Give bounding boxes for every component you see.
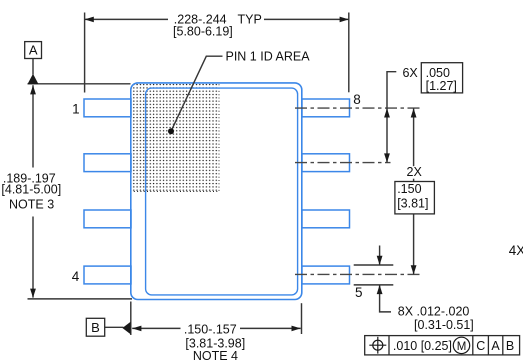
svg-text:M: M <box>457 341 467 353</box>
svg-text:NOTE 3: NOTE 3 <box>9 198 54 212</box>
svg-text:4: 4 <box>72 269 80 284</box>
svg-text:A: A <box>491 339 500 353</box>
svg-text:.050: .050 <box>426 66 450 80</box>
svg-text:2X: 2X <box>407 165 423 179</box>
svg-text:TYP: TYP <box>238 13 262 27</box>
svg-text:5: 5 <box>355 285 363 300</box>
svg-text:[1.27]: [1.27] <box>426 79 457 93</box>
svg-text:4X: 4X <box>509 243 523 258</box>
svg-text:[0.31-0.51]: [0.31-0.51] <box>414 318 474 332</box>
svg-text:[3.81]: [3.81] <box>397 197 428 211</box>
svg-text:C: C <box>476 339 485 353</box>
svg-text:B: B <box>506 339 514 353</box>
svg-text:A: A <box>29 43 38 58</box>
svg-text:.150: .150 <box>397 182 421 196</box>
svg-text:8X .012-.020: 8X .012-.020 <box>398 305 470 319</box>
svg-text:8: 8 <box>353 92 361 107</box>
svg-text:[5.80-6.19]: [5.80-6.19] <box>173 24 233 38</box>
svg-text:.150-.157: .150-.157 <box>184 323 237 337</box>
svg-text:[4.81-5.00]: [4.81-5.00] <box>1 183 61 197</box>
svg-text:B: B <box>91 320 100 335</box>
svg-text:6X: 6X <box>402 66 418 80</box>
svg-text:1: 1 <box>72 102 80 117</box>
svg-text:PIN 1 ID AREA: PIN 1 ID AREA <box>226 50 311 64</box>
svg-text:NOTE 4: NOTE 4 <box>193 349 238 362</box>
svg-text:.010 [0.25]: .010 [0.25] <box>393 339 452 353</box>
